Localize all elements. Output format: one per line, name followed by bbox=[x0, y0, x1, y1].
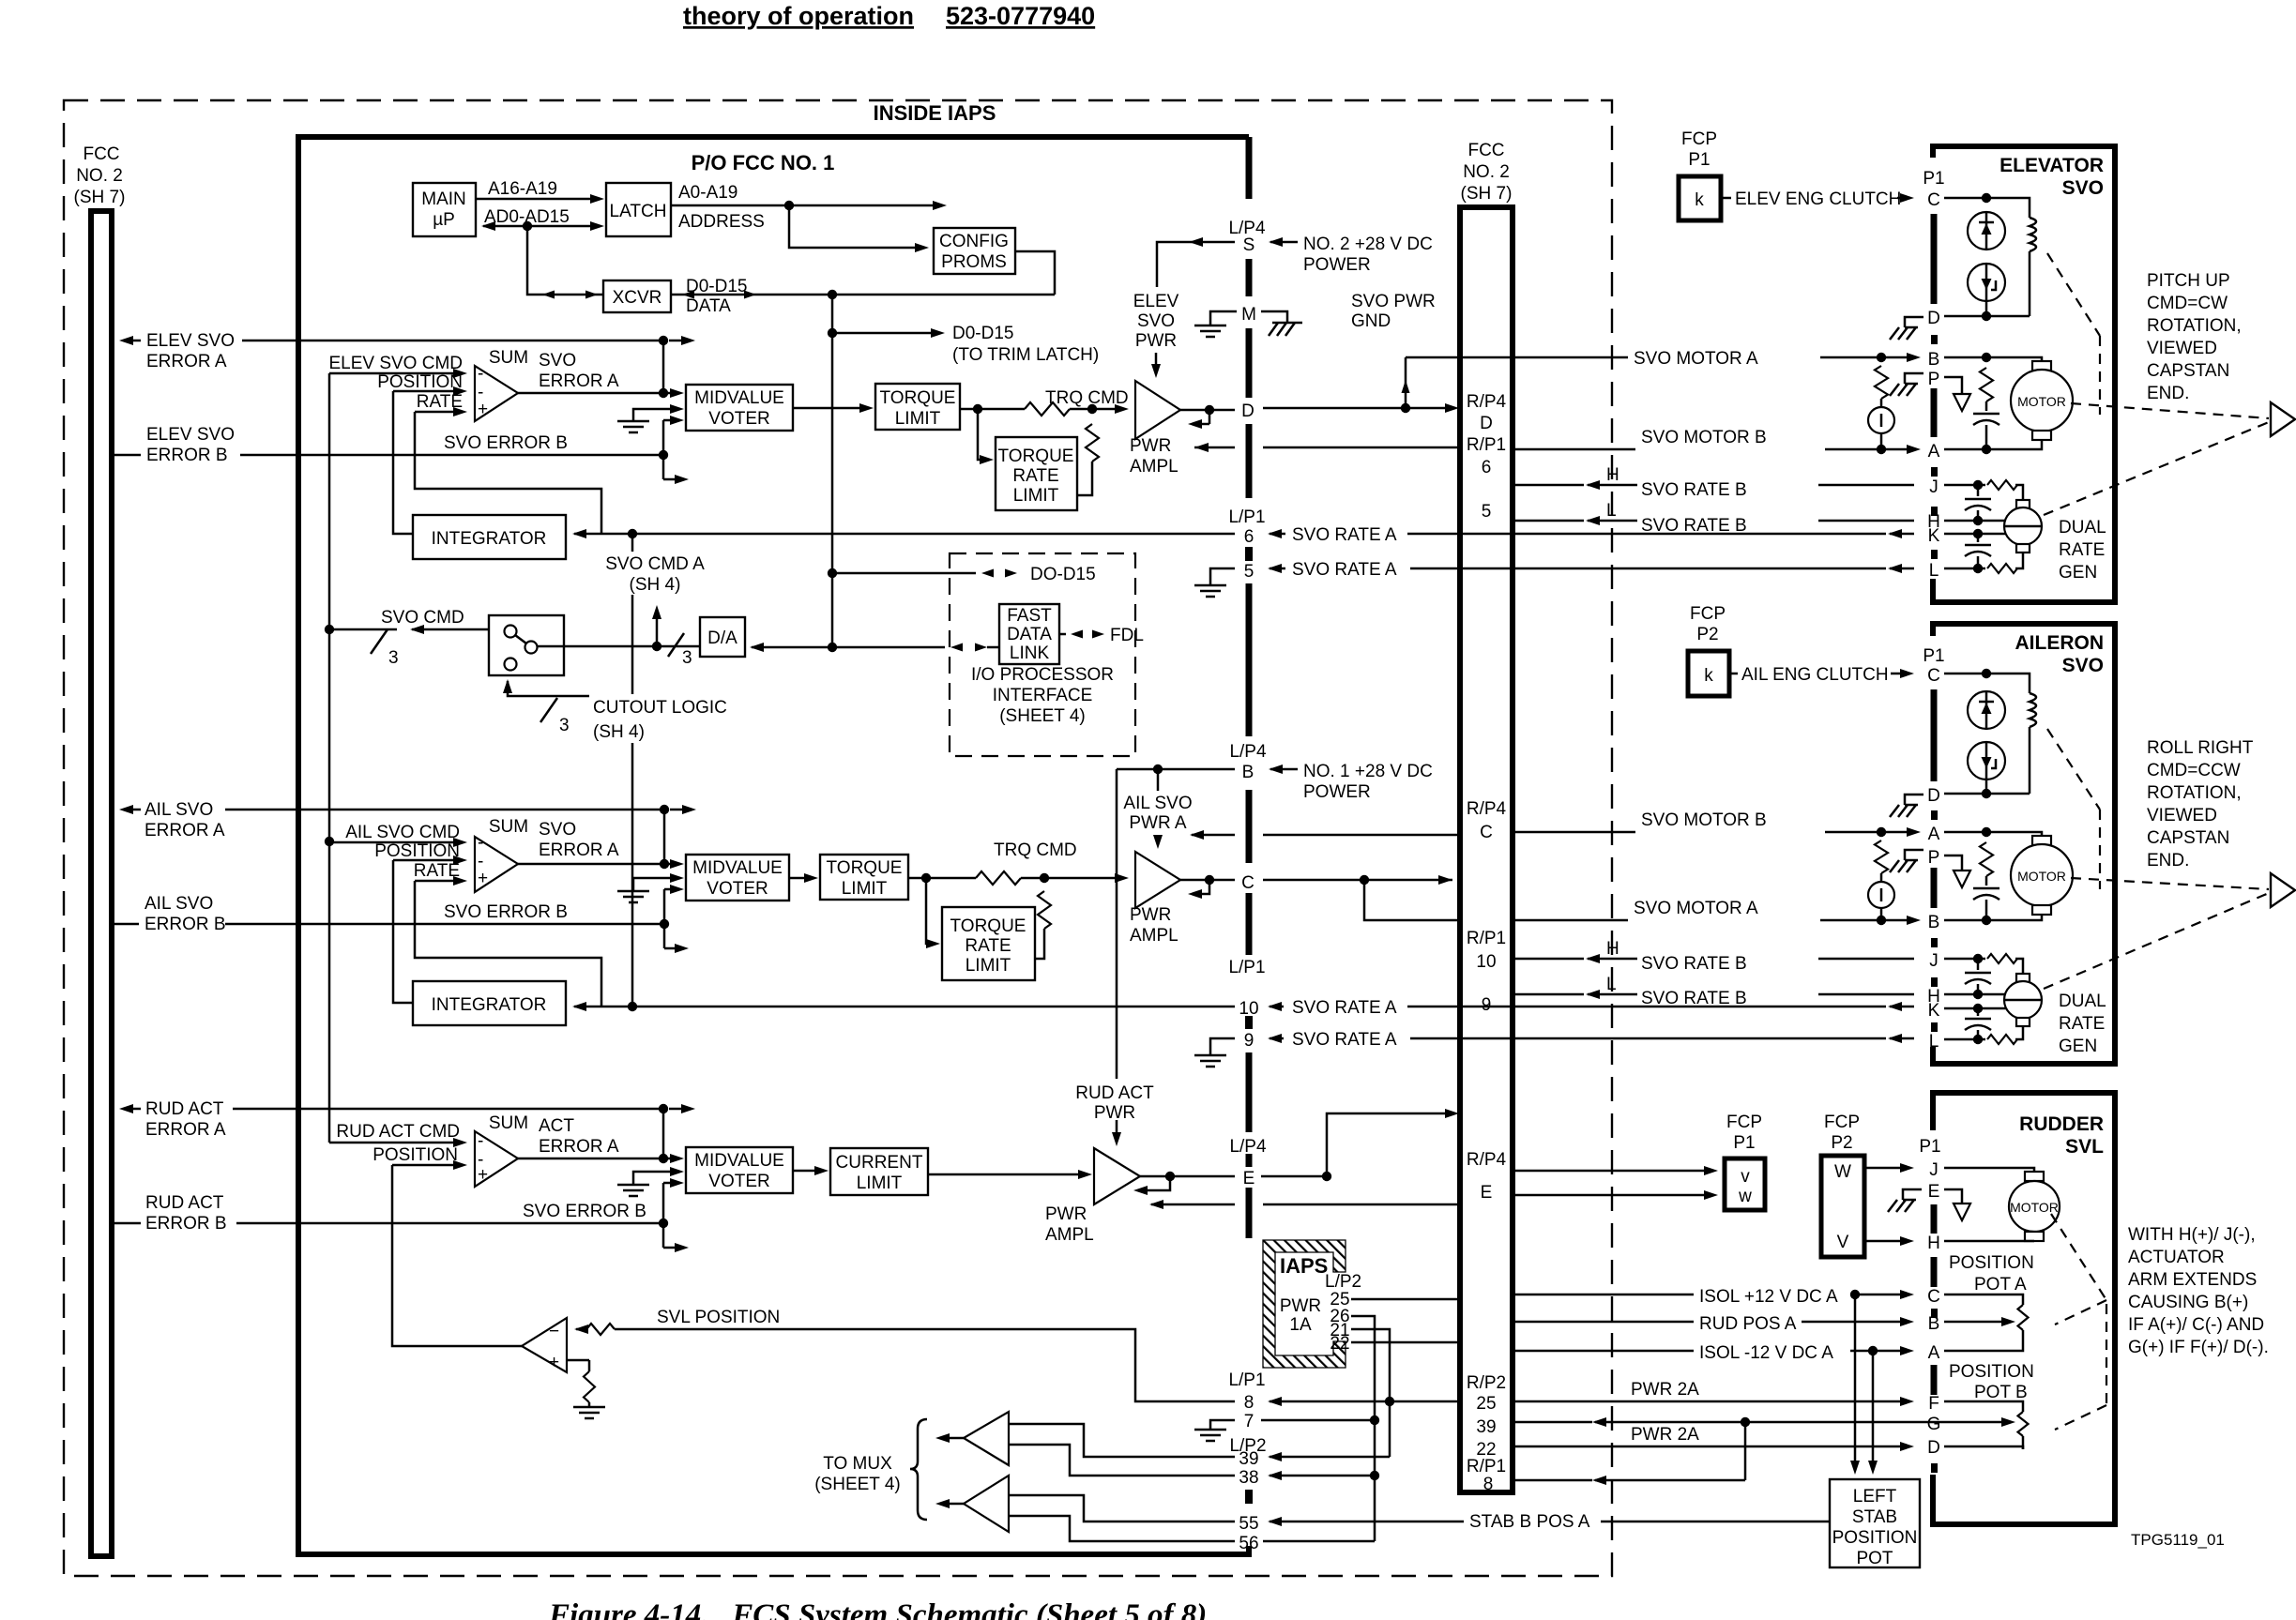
svg-text:1A: 1A bbox=[1289, 1315, 1312, 1335]
chassis ground near D (ail) bbox=[1905, 795, 1923, 805]
svg-text:I/O PROCESSOR: I/O PROCESSOR bbox=[971, 665, 1114, 685]
wire ISOL +12 V DC A row bbox=[1513, 1294, 1694, 1296]
wire MUX lower output bbox=[942, 1503, 964, 1506]
svg-text:AIL ENG CLUTCH: AIL ENG CLUTCH bbox=[1741, 665, 1889, 685]
op-amp SVL position follower bbox=[522, 1318, 567, 1372]
wire ISOL+12 down to stab pot bbox=[1854, 1294, 1857, 1466]
wire branch to TORQUE RATE LIMIT (elev) bbox=[978, 409, 987, 460]
block TORQUE RATE LIMIT (elev) bbox=[996, 437, 1077, 510]
svg-text:AIL SVO CMD: AIL SVO CMD bbox=[345, 823, 460, 842]
svg-text:D: D bbox=[1480, 414, 1493, 433]
wire G branch down to RP1-8 row bbox=[1744, 1422, 1747, 1480]
svg-text:(SHEET 4): (SHEET 4) bbox=[999, 706, 1086, 726]
wire E to R/P4 jog bbox=[1261, 1175, 1327, 1178]
svg-text:D/A: D/A bbox=[707, 628, 737, 648]
wire SVL minus input with resistor bbox=[574, 1325, 588, 1334]
svg-text:SVO CMD: SVO CMD bbox=[381, 608, 464, 628]
svg-text:ERROR A: ERROR A bbox=[539, 371, 619, 391]
svg-text:B: B bbox=[1242, 763, 1254, 782]
chassis ground near P (ail) bbox=[1905, 850, 1923, 860]
wire MUX lower in2 from 56 bbox=[1009, 1516, 1235, 1541]
svg-text:+: + bbox=[478, 1165, 488, 1185]
svg-text:AIL SVO: AIL SVO bbox=[144, 800, 213, 820]
svg-text:NO. 2: NO. 2 bbox=[1463, 162, 1510, 182]
svg-text:PITCH UP: PITCH UP bbox=[2147, 271, 2230, 291]
capstan arrow (elev) bbox=[2271, 402, 2295, 436]
svg-text:SVO RATE A: SVO RATE A bbox=[1292, 998, 1397, 1018]
svg-text:POT: POT bbox=[1856, 1549, 1893, 1568]
wire cutout logic into switch bbox=[503, 679, 512, 693]
svg-text:D0-D15: D0-D15 bbox=[952, 324, 1013, 343]
mech dashed link gen to capstan (ail) bbox=[2044, 893, 2269, 989]
wire FDL stub bbox=[1071, 630, 1083, 639]
svg-text:NO. 2: NO. 2 bbox=[76, 166, 123, 186]
svg-text:ERROR A: ERROR A bbox=[539, 840, 619, 860]
svg-text:PWR A: PWR A bbox=[1129, 813, 1187, 833]
svg-text:8: 8 bbox=[1244, 1393, 1254, 1413]
svg-text:TORQUE: TORQUE bbox=[998, 447, 1074, 466]
svg-text:ISOL -12 V DC A: ISOL -12 V DC A bbox=[1699, 1343, 1833, 1363]
block INTEGRATOR (ail) bbox=[413, 981, 566, 1025]
wire B row inside (elev) bbox=[1944, 357, 2042, 361]
svg-text:FCC: FCC bbox=[83, 144, 119, 164]
wire arrow into 55 and STAB row bbox=[1268, 1517, 1282, 1526]
wire NO.2 +28V into S bbox=[1269, 237, 1283, 247]
svg-text:SVO MOTOR A: SVO MOTOR A bbox=[1634, 899, 1758, 918]
svg-text:SVO RATE A: SVO RATE A bbox=[1292, 525, 1397, 545]
wire D row (elev svo) bbox=[1944, 315, 2030, 318]
mech dashed link clutch (ail) bbox=[2047, 729, 2100, 810]
wire SVO RATE A row pin5 bbox=[1410, 568, 1460, 570]
P1 connector segments (rudder) bbox=[1931, 1204, 1938, 1234]
capacitor J-H (ail) bbox=[1977, 959, 1980, 970]
wire C row to pot A (rudder) bbox=[1944, 1294, 2023, 1305]
svg-text:-: - bbox=[478, 833, 483, 853]
svg-text:FCC: FCC bbox=[1467, 141, 1504, 160]
svg-text:ELEV: ELEV bbox=[1133, 292, 1179, 311]
svg-text:(SHEET 4): (SHEET 4) bbox=[814, 1475, 901, 1494]
current source I (ail) bbox=[1880, 873, 1883, 882]
wire to PWR AMPL input (ail) bbox=[1021, 877, 1122, 880]
svg-text:L: L bbox=[1606, 501, 1617, 521]
wire RUD POS A row bbox=[1513, 1321, 1694, 1324]
svg-text:SVO: SVO bbox=[539, 820, 576, 840]
svg-text:J: J bbox=[1929, 1160, 1939, 1180]
wire arrow into PWR AMPL top (ail) bbox=[1157, 835, 1160, 842]
wire AIL SVO ERROR A bbox=[119, 805, 133, 814]
wire A16-A19 MAIN uP to LATCH bbox=[476, 198, 599, 201]
svg-text:CMD=CW: CMD=CW bbox=[2147, 294, 2228, 313]
wire SVO MOTOR B row (ail) bbox=[1513, 831, 1635, 834]
stub arrow ERROR B continue (rud) bbox=[663, 1247, 682, 1249]
wire AIL ENG CLUTCH bbox=[1729, 673, 1738, 675]
wire A row feedback crossing (elev) bbox=[1194, 447, 1235, 449]
wire SVO RATE A row (elev) bbox=[572, 529, 586, 538]
P/O FCC NO.1 box outline (thick) bbox=[298, 137, 1249, 1554]
diode circle up (ail) bbox=[1968, 691, 2005, 729]
svg-text:B: B bbox=[1928, 350, 1940, 370]
motor (elev) bbox=[2032, 361, 2051, 371]
svg-text:P: P bbox=[1928, 370, 1940, 389]
svg-text:RUDDER: RUDDER bbox=[2019, 1113, 2104, 1135]
wire ELEV SVO PWR from S pin bbox=[1195, 241, 1235, 244]
clutch coil (ail) bbox=[2030, 693, 2036, 727]
block XCVR bbox=[603, 280, 671, 312]
svg-text:P/O FCC NO. 1: P/O FCC NO. 1 bbox=[692, 151, 835, 174]
svg-text:SVO MOTOR B: SVO MOTOR B bbox=[1641, 428, 1767, 447]
wire pin5 ground bbox=[1210, 568, 1235, 585]
svg-text:CONFIG: CONFIG bbox=[939, 232, 1009, 251]
slash 3 marker (cutout) bbox=[540, 698, 557, 722]
brace TO MUX bbox=[910, 1419, 927, 1520]
svg-text:theory of operation: theory of operation bbox=[683, 2, 914, 30]
block TORQUE LIMIT (elev) bbox=[875, 384, 960, 430]
wire MUX lower in1 from 55 bbox=[1009, 1495, 1235, 1522]
svg-text:DATA: DATA bbox=[1007, 625, 1052, 644]
svg-text:WITH H(+)/ J(-),: WITH H(+)/ J(-), bbox=[2128, 1225, 2256, 1245]
svg-text:SVO RATE A: SVO RATE A bbox=[1292, 560, 1397, 580]
wire K row gen (ail) bbox=[1944, 1007, 1978, 1010]
svg-text:MIDVALUE: MIDVALUE bbox=[694, 388, 784, 408]
svg-text:POSITION: POSITION bbox=[373, 1145, 458, 1165]
wire SVO RATE B row J (ail) bbox=[1513, 958, 1584, 961]
wire ELEV POSITION input bbox=[393, 390, 461, 393]
wire J row gen (ail) bbox=[1944, 958, 1978, 961]
wire PWR AMPL feedback (ail) bbox=[1194, 880, 1209, 894]
wire to PWR AMPL input (elev) bbox=[1070, 408, 1122, 411]
wire gen top corner (ail) bbox=[2015, 959, 2023, 974]
wire PWR AMPL out to D pin (elev) bbox=[1180, 409, 1235, 412]
wire M to chassis ground bbox=[1261, 311, 1287, 323]
svg-text:SVO ERROR B: SVO ERROR B bbox=[444, 433, 568, 453]
wire switch to D/A bbox=[538, 645, 700, 648]
svg-text:M: M bbox=[1241, 305, 1256, 325]
wire arrow into 9 bbox=[1268, 1034, 1282, 1043]
svg-text:-: - bbox=[478, 1131, 483, 1151]
block D/A bbox=[700, 617, 745, 657]
svg-text:AMPL: AMPL bbox=[1130, 926, 1178, 946]
op-amp PWR AMPL (elev) bbox=[1135, 381, 1180, 439]
wire H row gen (elev) bbox=[1944, 520, 1978, 522]
svg-text:22: 22 bbox=[1330, 1334, 1349, 1354]
svg-text:L/P4: L/P4 bbox=[1229, 1137, 1267, 1157]
wire K row gen (elev) bbox=[1944, 533, 1978, 536]
svg-text:6: 6 bbox=[1482, 458, 1492, 477]
svg-text:POSITION: POSITION bbox=[1949, 1253, 2034, 1273]
svg-text:MAIN: MAIN bbox=[421, 189, 466, 209]
svg-text:3: 3 bbox=[682, 648, 692, 668]
INSIDE IAPS dashed boundary box bbox=[64, 100, 1612, 1576]
svg-text:L/P1: L/P1 bbox=[1228, 958, 1265, 977]
capstan arrow (ail) bbox=[2271, 873, 2295, 907]
svg-text:ROTATION,: ROTATION, bbox=[2147, 783, 2242, 803]
RUDDER SVL box outline bbox=[1933, 1093, 2115, 1524]
connector square 10-9 bbox=[1245, 1016, 1253, 1029]
wire SVO MOTOR A row (elev) bbox=[1406, 356, 1628, 359]
svg-text:SVO MOTOR A: SVO MOTOR A bbox=[1634, 349, 1758, 369]
block CONFIG PROMS bbox=[934, 228, 1015, 274]
svg-text:TORQUE: TORQUE bbox=[950, 916, 1026, 936]
wire integrator output to POSITION (elev) bbox=[393, 391, 413, 534]
svg-text:POSITION: POSITION bbox=[377, 372, 463, 392]
wire TL out with series resistor (ail) bbox=[908, 877, 976, 880]
wire CL out to PWR AMPL (rud) bbox=[928, 1173, 1086, 1176]
svg-text:MIDVALUE: MIDVALUE bbox=[692, 858, 783, 878]
svg-text:SVO RATE A: SVO RATE A bbox=[1292, 1030, 1397, 1050]
svg-text:VIEWED: VIEWED bbox=[2147, 806, 2217, 825]
svg-text:55: 55 bbox=[1239, 1514, 1258, 1534]
svg-text:523-0777940: 523-0777940 bbox=[946, 2, 1095, 30]
block FCP P1 v w (rudder) bbox=[1725, 1158, 1765, 1210]
svg-text:ELEV SVO: ELEV SVO bbox=[146, 331, 235, 351]
svg-text:NO. 1 +28 V DC: NO. 1 +28 V DC bbox=[1303, 762, 1433, 781]
wire ISOL-12 down to stab pot bbox=[1872, 1351, 1875, 1466]
svg-text:POSITION: POSITION bbox=[374, 841, 460, 861]
svg-text:CAUSING B(+): CAUSING B(+) bbox=[2128, 1293, 2248, 1312]
ground at voter input 2 (ail) bbox=[633, 878, 677, 891]
capacitor motor (elev) bbox=[1985, 401, 1988, 411]
svg-text:R/P4: R/P4 bbox=[1467, 1150, 1507, 1170]
mech dashed link potA-potB (rudder) bbox=[2106, 1304, 2107, 1405]
wire AIL RATE input bbox=[415, 880, 461, 883]
svg-text:µP: µP bbox=[433, 210, 455, 230]
wire D branch up to motor A row bbox=[1405, 357, 1407, 408]
svg-text:B: B bbox=[1928, 913, 1940, 932]
svg-text:E: E bbox=[1928, 1182, 1940, 1202]
svg-text:SUM: SUM bbox=[489, 348, 528, 368]
svg-text:7: 7 bbox=[1244, 1412, 1254, 1431]
svg-text:5: 5 bbox=[1482, 502, 1492, 522]
wire K row crossing (ail) bbox=[1460, 1006, 1886, 1008]
connector square 38-55 bbox=[1245, 1490, 1253, 1504]
op-amp MUX buffer upper bbox=[964, 1412, 1009, 1465]
svg-text:VIEWED: VIEWED bbox=[2147, 339, 2217, 358]
wire RUD sum output to voter bbox=[518, 1158, 677, 1160]
svg-text:J: J bbox=[1929, 477, 1939, 497]
svg-text:G(+) IF F(+)/ D(-).: G(+) IF F(+)/ D(-). bbox=[2128, 1338, 2269, 1357]
wire L row crossing (elev) bbox=[1460, 568, 1513, 570]
svg-text:P1: P1 bbox=[1923, 169, 1944, 189]
wire B row wiper (rudder) bbox=[1944, 1321, 2004, 1324]
capacitor K-L (ail) bbox=[1977, 1008, 1980, 1016]
chassis ground near E (rudder) bbox=[1903, 1189, 1922, 1200]
svg-text:R/P4: R/P4 bbox=[1467, 799, 1507, 819]
wire voter input 3 (elev) bbox=[663, 419, 677, 422]
svg-text:G: G bbox=[1927, 1415, 1941, 1434]
slash 3 marker (svo cmd) bbox=[371, 629, 388, 654]
svg-text:RATE: RATE bbox=[2059, 1014, 2105, 1034]
wire AD0-AD15 bidirectional bbox=[483, 225, 599, 228]
wire iaps 25 to ISOL+12 row bbox=[1351, 1298, 1460, 1301]
svg-text:RATE: RATE bbox=[2059, 540, 2105, 560]
svg-text:39: 39 bbox=[1476, 1417, 1496, 1437]
svg-text:ELEV SVO: ELEV SVO bbox=[146, 425, 235, 445]
diode circle down (ail) bbox=[1968, 742, 2005, 780]
wire G row to column bbox=[1745, 1421, 1944, 1424]
svg-text:R/P1: R/P1 bbox=[1467, 1457, 1506, 1476]
svg-text:E: E bbox=[1481, 1183, 1493, 1203]
wire RUD ACT PWR vertical bbox=[1116, 769, 1118, 1079]
op-amp PWR AMPL (rud) bbox=[1094, 1148, 1140, 1204]
svg-text:PWR: PWR bbox=[1130, 436, 1171, 456]
wire H row gen (ail) bbox=[1944, 993, 1978, 996]
svg-text:VOTER: VOTER bbox=[707, 879, 768, 899]
wire ERROR A to voter input 1 bbox=[662, 341, 665, 393]
svg-text:9: 9 bbox=[1244, 1031, 1254, 1051]
svg-text:J: J bbox=[1929, 951, 1939, 971]
svg-text:FCP: FCP bbox=[1726, 1113, 1762, 1132]
block MAIN uP bbox=[413, 183, 476, 236]
svg-text:NO. 2 +28 V DC: NO. 2 +28 V DC bbox=[1303, 235, 1433, 254]
right FCC NO.2 connector column bbox=[1460, 207, 1513, 1492]
svg-text:CURRENT: CURRENT bbox=[836, 1153, 923, 1173]
svg-text:P2: P2 bbox=[1696, 625, 1718, 644]
block CURRENT LIMIT (rud) bbox=[830, 1148, 928, 1195]
rate generator (elev) bbox=[2016, 500, 2030, 508]
svg-text:H: H bbox=[1927, 1234, 1940, 1253]
wire SVO RATE A row pin6 to column bbox=[1407, 533, 1460, 536]
svg-text:LINK: LINK bbox=[1010, 643, 1050, 663]
svg-text:10: 10 bbox=[1239, 999, 1258, 1019]
svg-text:L: L bbox=[1929, 1032, 1939, 1052]
wire clutch C net (ail) bbox=[1944, 673, 1986, 675]
svg-text:C: C bbox=[1927, 190, 1940, 210]
chassis ground SVO PWR GND bbox=[1272, 322, 1302, 325]
svg-text:ERROR B: ERROR B bbox=[144, 915, 226, 934]
resistor left sense (ail) bbox=[1875, 840, 1888, 873]
svg-text:POT A: POT A bbox=[1974, 1275, 2027, 1294]
slash 3 marker (da) bbox=[668, 633, 684, 657]
svg-text:MOTOR: MOTOR bbox=[2010, 1200, 2059, 1215]
wire feedback resistor to TRL box (ail) bbox=[1035, 929, 1044, 959]
svg-text:ELEVATOR: ELEVATOR bbox=[1999, 155, 2104, 176]
IAPS hatched frame bbox=[1263, 1240, 1346, 1368]
wire B pin to AIL SVO PWR A bbox=[1117, 768, 1235, 771]
svg-text:RUD ACT CMD: RUD ACT CMD bbox=[336, 1122, 460, 1142]
wire MUX upper output bbox=[942, 1437, 964, 1440]
wire data bus vertical bbox=[831, 295, 834, 647]
rate bus vertical x=674 bbox=[631, 534, 634, 552]
wire PWR AMPL out to C pin (ail) bbox=[1180, 879, 1235, 882]
svg-text:L: L bbox=[1606, 975, 1617, 994]
wire diode chain to D (ail) bbox=[1985, 780, 1988, 794]
wire integrator output to POSITION (ail) bbox=[393, 860, 413, 1003]
svg-text:(SH 4): (SH 4) bbox=[593, 722, 645, 742]
wire G row wiper (rudder) bbox=[1944, 1421, 2004, 1424]
svg-text:DUAL: DUAL bbox=[2059, 992, 2106, 1011]
wire P pin stub (elev) bbox=[1944, 377, 1962, 394]
wire ISOL -12 V DC A row bbox=[1513, 1350, 1694, 1353]
wire P pin stub (ail) bbox=[1944, 855, 1962, 871]
svg-text:-: - bbox=[478, 364, 483, 384]
diode circle up (elev) bbox=[1968, 212, 2005, 250]
wire L row gen (elev) bbox=[1944, 568, 1978, 570]
mech dashed link gen to capstan (elev) bbox=[2044, 422, 2269, 515]
svg-text:LIMIT: LIMIT bbox=[857, 1173, 903, 1193]
svg-text:AMPL: AMPL bbox=[1045, 1225, 1094, 1245]
svg-text:3: 3 bbox=[388, 648, 399, 668]
wire SVO RATE A row (ail) bbox=[572, 1002, 586, 1011]
svg-text:R/P4: R/P4 bbox=[1467, 392, 1507, 412]
svg-text:C: C bbox=[1480, 823, 1493, 842]
svg-text:(SH 4): (SH 4) bbox=[630, 575, 681, 595]
svg-text:D: D bbox=[1927, 1438, 1940, 1458]
wire M to earth ground bbox=[1210, 311, 1237, 326]
svg-text:SVO: SVO bbox=[1137, 311, 1175, 331]
svg-text:+: + bbox=[549, 1353, 559, 1372]
wire AIL PWR A feedback row bbox=[1190, 830, 1204, 840]
svg-text:C: C bbox=[1927, 666, 1940, 686]
wire ELEV RATE input bbox=[415, 411, 461, 414]
svg-text:ROLL RIGHT: ROLL RIGHT bbox=[2147, 738, 2254, 758]
switch contact circles bbox=[505, 626, 517, 638]
wire gen bottom corner (elev) bbox=[2015, 553, 2023, 568]
svg-text:A: A bbox=[1928, 825, 1940, 844]
svg-text:10: 10 bbox=[1476, 952, 1496, 972]
svg-text:(SH 7): (SH 7) bbox=[1461, 184, 1513, 204]
capacitor J-H (elev) bbox=[1977, 485, 1980, 496]
svg-text:H: H bbox=[1606, 939, 1619, 959]
svg-text:CUTOUT LOGIC: CUTOUT LOGIC bbox=[593, 698, 727, 718]
wire J row to motor (rudder) bbox=[1944, 1168, 2034, 1172]
wire voter out to TORQUE LIMIT (elev) bbox=[793, 407, 867, 410]
svg-text:A: A bbox=[1928, 442, 1940, 462]
block LATCH bbox=[606, 183, 671, 236]
connector L/P4 segment below 9 bbox=[1246, 1052, 1253, 1132]
svg-text:38: 38 bbox=[1239, 1468, 1258, 1488]
op-amp MUX buffer lower bbox=[964, 1476, 1009, 1532]
block FCP P2 W V (rudder) bbox=[1821, 1156, 1864, 1257]
op-amp SUM (ail) bbox=[475, 837, 518, 892]
wire gen top corner (elev) bbox=[2015, 485, 2023, 500]
svg-text:W: W bbox=[1834, 1162, 1851, 1182]
wire STAB B POS A to left stab pot bbox=[1601, 1521, 1830, 1523]
current source I (elev) bbox=[1880, 399, 1883, 407]
wire MUX upper in2 from 38 bbox=[1009, 1445, 1235, 1476]
capacitor motor (ail) bbox=[1985, 876, 1988, 886]
svg-text:L/P2: L/P2 bbox=[1325, 1272, 1361, 1292]
svg-text:SVO CMD A: SVO CMD A bbox=[605, 554, 705, 574]
svg-text:SVO ERROR B: SVO ERROR B bbox=[523, 1202, 646, 1221]
switch lever bbox=[515, 635, 526, 643]
wire AD bus down to XCVR bbox=[527, 226, 603, 295]
wire voter out to CURRENT LIMIT (rud) bbox=[793, 1170, 822, 1173]
ground at voter input 2 (rud) bbox=[633, 1172, 677, 1185]
svg-text:A: A bbox=[1928, 1343, 1940, 1363]
block FCP P2 k (ail clutch) bbox=[1688, 651, 1729, 696]
svg-text:L/P4: L/P4 bbox=[1229, 742, 1267, 762]
connector L/P4 segments (ail) bbox=[1246, 610, 1253, 736]
svg-text:ACT: ACT bbox=[539, 1116, 574, 1136]
svg-text:8: 8 bbox=[1483, 1475, 1494, 1494]
wire V to H pin (rudder) bbox=[1864, 1240, 1907, 1243]
svg-text:R/P1: R/P1 bbox=[1467, 435, 1506, 455]
svg-text:PROMS: PROMS bbox=[941, 252, 1007, 272]
svg-text:LATCH: LATCH bbox=[610, 202, 667, 221]
op-amp SUM (elev) bbox=[475, 366, 518, 421]
potentiometer B (rudder) bbox=[2018, 1412, 2029, 1436]
svg-text:INTERFACE: INTERFACE bbox=[993, 686, 1093, 705]
wire ERROR A to voter input1 (rud) bbox=[662, 1109, 665, 1158]
svg-text:DATA: DATA bbox=[686, 296, 731, 316]
open arrow down P (ail) bbox=[1954, 871, 1970, 887]
svg-text:ERROR B: ERROR B bbox=[146, 446, 228, 465]
wire arrow into 10 bbox=[1268, 1002, 1282, 1011]
svg-text:56: 56 bbox=[1239, 1534, 1258, 1553]
svg-text:9: 9 bbox=[1482, 995, 1492, 1015]
svg-text:RUD POS A: RUD POS A bbox=[1699, 1314, 1797, 1334]
wire SVO RATE B row H (elev) bbox=[1513, 520, 1584, 522]
